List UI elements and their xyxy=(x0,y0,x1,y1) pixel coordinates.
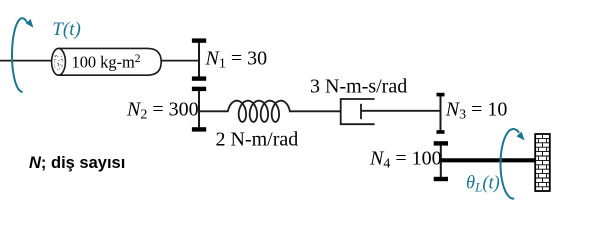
gear N1 bottom tooth cap xyxy=(192,76,206,80)
wire cylinder to gear N1 xyxy=(161,60,199,62)
arrowhead (load rotation) xyxy=(516,132,524,141)
svg-text:N; diş sayısı: N; diş sayısı xyxy=(29,154,125,172)
svg-text:N2 = 300: N2 = 300 xyxy=(126,99,199,123)
gear N3 shaft line xyxy=(440,94,442,132)
gear N4 bottom tooth cap xyxy=(434,177,448,181)
gear N2 shaft line xyxy=(198,89,200,130)
svg-text:2 N-m/rad: 2 N-m/rad xyxy=(216,129,299,151)
svg-text:100 kg-m2: 100 kg-m2 xyxy=(72,52,141,71)
gear N4 top tooth cap xyxy=(434,141,448,145)
input shaft wire xyxy=(0,60,52,62)
gear N4 shaft line xyxy=(440,143,442,179)
svg-text:T(t): T(t) xyxy=(52,19,81,40)
damper D = 3 N-m-s/rad cup xyxy=(341,99,375,124)
gear N1 shaft line xyxy=(198,40,200,80)
wall brick hatching xyxy=(535,134,550,191)
gear N2 top tooth cap xyxy=(192,87,206,91)
arrowhead (input rotation) xyxy=(26,19,34,28)
wire spring to damper xyxy=(289,110,341,112)
damper piston xyxy=(360,104,362,119)
svg-text:N4 = 100: N4 = 100 xyxy=(369,148,442,172)
rotation arrow (load direction) xyxy=(501,129,520,199)
inertia cylinder body (100 kg-m2) xyxy=(59,48,162,75)
svg-text:3 N-m-s/rad: 3 N-m-s/rad xyxy=(310,76,407,98)
svg-text:N3 = 10: N3 = 10 xyxy=(445,99,508,123)
inertia cylinder left end face xyxy=(52,48,66,75)
wire N2 to spring xyxy=(199,110,229,112)
gear N2 bottom tooth cap xyxy=(192,127,206,131)
torsional spring K = 2 N-m/rad xyxy=(228,101,290,122)
wall (fixed support) xyxy=(535,134,550,191)
gear N3 bottom tooth cap xyxy=(437,130,445,134)
gear N1 top tooth cap xyxy=(192,38,206,42)
load shaft (thick) xyxy=(441,158,536,162)
rotation arrow (input torque direction) xyxy=(12,18,27,92)
wire damper to gear N3 xyxy=(361,110,441,112)
svg-text:N1 = 30: N1 = 30 xyxy=(205,47,268,71)
gear N3 top tooth cap xyxy=(437,93,445,97)
svg-text:θL(t): θL(t) xyxy=(466,173,500,194)
